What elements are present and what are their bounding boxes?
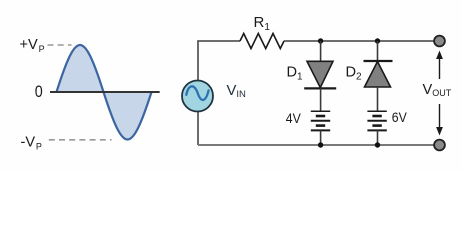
waveform graph: horizontal zero axis — [50, 91, 160, 93]
waveform graph: +Vp dashed level line — [48, 44, 72, 46]
output terminal top — [434, 36, 445, 47]
wire: top wire left segment (source to resistor) — [197, 40, 240, 42]
waveform graph: -Vp dashed level line — [49, 139, 112, 141]
wire: D1 to battery stub — [320, 88, 322, 111]
wire: D2 to battery stub — [377, 87, 379, 111]
svg-text:0: 0 — [35, 83, 43, 101]
wire: D2 branch top stub — [377, 41, 379, 61]
wire: D1 branch top stub — [320, 41, 322, 62]
waveform graph: sine wave fill and stroke — [57, 45, 152, 140]
wire: left vertical wire bottom (AC source to bottom wire) — [197, 112, 199, 146]
AC source Vin (circle with sine) — [182, 81, 213, 112]
wire: bottom wire — [198, 144, 434, 146]
svg-text:-VP: -VP — [21, 135, 42, 152]
svg-text:4V: 4V — [286, 111, 301, 127]
wire: battery 4V to bottom wire — [320, 130, 322, 145]
svg-text:VOUT: VOUT — [423, 82, 452, 98]
node junction dot bottom D2 — [375, 142, 380, 147]
node junction dot top D2 — [375, 38, 380, 43]
node junction dot top D1 — [318, 38, 323, 43]
svg-text:R1: R1 — [254, 14, 271, 33]
svg-text:D2: D2 — [346, 65, 363, 83]
svg-text:6V: 6V — [392, 110, 407, 126]
diode D1 (pointing down) — [304, 61, 336, 88]
output terminal bottom — [434, 140, 445, 151]
waveform graph: +Vp label — [20, 37, 45, 54]
wire: battery 6V to bottom wire — [377, 130, 379, 145]
Vout down arrow — [436, 104, 443, 136]
svg-text:VIN: VIN — [227, 83, 247, 100]
svg-text:D1: D1 — [287, 65, 304, 83]
battery 6V — [367, 111, 386, 130]
wire: left vertical wire top (to AC source) — [197, 41, 199, 81]
Vout up arrow — [436, 51, 443, 80]
svg-text:+VP: +VP — [20, 37, 45, 54]
node junction dot bottom D1 — [318, 142, 323, 147]
resistor R1 — [240, 34, 284, 49]
wire: top wire right segment (resistor to output terminal) — [284, 40, 434, 42]
battery 4V — [311, 111, 330, 130]
diode D2 (pointing up) — [364, 61, 393, 87]
